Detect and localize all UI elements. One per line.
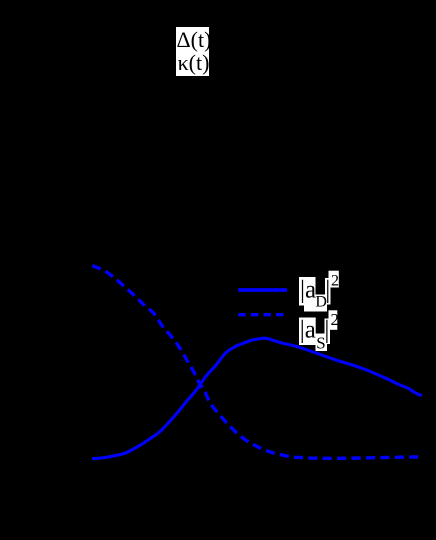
top label white box <box>176 27 209 76</box>
svg-text:|: | <box>324 317 329 344</box>
svg-text:Δ(t): Δ(t) <box>177 27 212 52</box>
legend dashed line sample <box>238 313 283 316</box>
svg-text:|a: |a <box>300 276 316 303</box>
svg-text:|: | <box>325 276 330 303</box>
legend solid line sample <box>238 288 287 292</box>
svg-text:|a: |a <box>300 317 316 344</box>
legend label |a_D|^2 white boxes <box>299 277 316 306</box>
svg-text:κ(t): κ(t) <box>178 50 210 75</box>
dashed curve |a_S|^2 <box>92 265 421 458</box>
svg-text:2: 2 <box>331 273 339 290</box>
solid curve |a_D|^2 <box>92 338 422 458</box>
legend label |a_S|^2 white boxes <box>299 318 316 346</box>
svg-text:2: 2 <box>331 310 340 329</box>
